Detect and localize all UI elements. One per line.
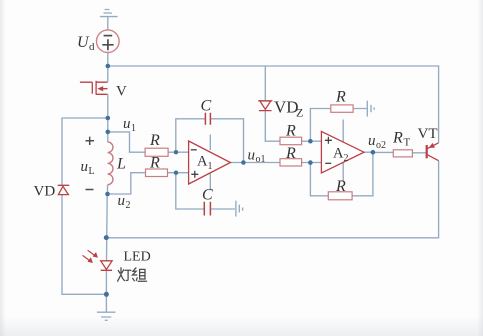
svg-text:d: d (89, 41, 95, 53)
svg-text:1: 1 (131, 123, 136, 134)
svg-text:R: R (285, 145, 296, 162)
svg-text:R: R (335, 89, 346, 106)
svg-text:u: u (248, 147, 256, 163)
svg-text:VD: VD (274, 98, 299, 117)
svg-text:o2: o2 (376, 140, 386, 151)
svg-text:A: A (197, 153, 208, 169)
svg-text:2: 2 (126, 200, 131, 211)
svg-text:u: u (123, 116, 131, 132)
svg-text:LED: LED (124, 250, 151, 265)
svg-text:C: C (202, 187, 213, 204)
svg-text:u: u (118, 193, 126, 209)
svg-text:u: u (368, 133, 376, 149)
svg-text:Z: Z (296, 106, 303, 120)
svg-text:R: R (149, 155, 160, 172)
svg-text:VT: VT (418, 126, 438, 142)
svg-text:L: L (89, 166, 95, 177)
svg-text:R: R (392, 130, 403, 147)
svg-text:R: R (335, 178, 346, 195)
svg-text:A: A (333, 146, 344, 162)
svg-text:VD: VD (34, 184, 56, 200)
svg-text:u: u (81, 159, 89, 175)
svg-text:R: R (285, 123, 296, 140)
svg-text:C: C (201, 98, 212, 115)
svg-text:o1: o1 (256, 154, 266, 165)
svg-text:T: T (404, 137, 411, 149)
svg-text:2: 2 (344, 153, 349, 164)
svg-text:1: 1 (208, 161, 213, 172)
svg-text:R: R (149, 132, 160, 149)
svg-text:L: L (116, 156, 126, 173)
svg-text:V: V (116, 84, 127, 100)
